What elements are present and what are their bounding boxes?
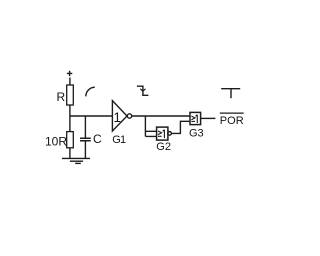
svg-text:G3: G3 [189, 128, 204, 140]
svg-text:POR: POR [220, 115, 244, 127]
svg-text:1: 1 [114, 110, 121, 125]
svg-text:G1: G1 [112, 134, 126, 146]
svg-text:G2: G2 [156, 141, 171, 153]
svg-text:C: C [93, 132, 102, 146]
svg-text:10R: 10R [45, 135, 67, 149]
svg-text:R: R [57, 90, 66, 104]
